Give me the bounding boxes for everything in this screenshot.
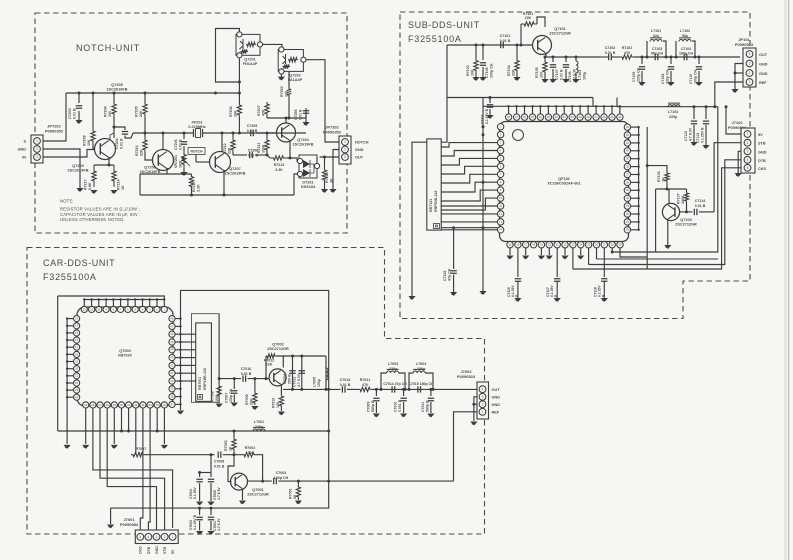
svg-text:82µ: 82µ	[653, 34, 659, 38]
resistor R7105	[544, 57, 546, 60]
wire left down1	[412, 142, 427, 296]
ground R7218	[321, 189, 328, 193]
svg-text:56µ: 56µ	[682, 34, 688, 38]
wire after C7013	[347, 388, 358, 390]
svg-text:100K: 100K	[246, 451, 255, 455]
svg-text:0.01 B: 0.01 B	[119, 138, 123, 149]
node rail-Q7201	[214, 92, 217, 95]
svg-text:C7205: C7205	[247, 124, 258, 128]
svg-text:L7001: L7001	[254, 420, 264, 424]
svg-text:REF: REF	[492, 411, 500, 415]
resistor R7211	[266, 133, 268, 139]
svg-text:STB: STB	[163, 547, 167, 554]
trimmer VR7201	[182, 151, 186, 168]
wire J7102 STB	[714, 143, 741, 212]
svg-text:680p B: 680p B	[371, 400, 375, 412]
svg-text:R7216: R7216	[135, 145, 139, 156]
ground Q7202	[280, 74, 282, 77]
node mid-R7211	[266, 132, 269, 135]
svg-text:0.01 B: 0.01 B	[241, 372, 252, 376]
svg-text:1K: 1K	[228, 446, 232, 451]
svg-text:5: 5	[139, 535, 141, 539]
node mid-R7216	[144, 132, 147, 135]
ground JP7201	[76, 188, 83, 192]
capacitor C7050	[289, 371, 295, 374]
svg-text:SUB-DDS-UNIT: SUB-DDS-UNIT	[408, 20, 480, 30]
svg-text:RRP1BB-132: RRP1BB-132	[203, 368, 207, 390]
resistor R7012	[265, 356, 267, 379]
svg-text:22K: 22K	[139, 110, 143, 117]
node filter	[375, 388, 378, 391]
wire JP7201 pin1 to rail	[43, 93, 66, 141]
svg-text:R7212: R7212	[223, 143, 227, 154]
svg-text:6.8K: 6.8K	[88, 182, 92, 190]
svg-text:220p CH: 220p CH	[636, 68, 640, 82]
svg-text:1K: 1K	[329, 178, 333, 183]
diode pack D7201 box	[299, 155, 317, 178]
svg-text:RB7001: RB7001	[198, 377, 202, 390]
svg-text:UNLESS OTHERWISE NOTED.: UNLESS OTHERWISE NOTED.	[60, 217, 125, 222]
svg-text:F3255100A: F3255100A	[43, 272, 97, 282]
svg-text:R7051: R7051	[289, 488, 293, 499]
svg-text:L7103: L7103	[578, 70, 582, 80]
svg-text:1K: 1K	[661, 177, 665, 182]
resistor R7007	[131, 453, 145, 457]
capacitor C7116	[515, 279, 521, 282]
wire Q7103 collector	[668, 189, 670, 204]
svg-text:2: 2	[482, 402, 484, 406]
svg-text:180p CH: 180p CH	[679, 52, 693, 56]
svg-text:2: 2	[164, 535, 166, 539]
capacitor C7015	[418, 386, 421, 392]
svg-text:4: 4	[148, 535, 150, 539]
wire Q7002 collector out	[283, 355, 326, 357]
svg-text:22K: 22K	[227, 147, 231, 154]
svg-text:C7008: C7008	[214, 460, 225, 464]
svg-text:R7104: R7104	[507, 65, 511, 76]
wire to Q7204 base	[256, 132, 276, 134]
wire Q7101 emitter	[545, 53, 547, 57]
wire R7213 to D7201	[287, 158, 299, 161]
svg-text:R7214: R7214	[117, 179, 121, 190]
wire left down2	[482, 228, 484, 291]
node 5v	[693, 105, 696, 108]
IC QF102 body	[500, 122, 629, 242]
svg-text:NOTCH: NOTCH	[355, 141, 369, 145]
inductor L7001	[253, 427, 265, 431]
ground C7255	[302, 122, 309, 126]
node lower	[266, 154, 269, 157]
svg-text:5V: 5V	[758, 133, 763, 137]
svg-text:100K: 100K	[681, 195, 685, 204]
wire carpin4	[113, 408, 115, 444]
connector J7002	[477, 382, 489, 419]
svg-text:3: 3	[36, 155, 38, 159]
svg-text:C7104: C7104	[681, 47, 691, 51]
wire carpin5	[121, 408, 123, 431]
wire carpin8	[140, 408, 143, 531]
svg-text:1: 1	[344, 140, 346, 144]
svg-text:Q7203: Q7203	[72, 164, 83, 168]
ground C7203	[75, 120, 82, 124]
svg-text:R7206: R7206	[229, 106, 233, 117]
svg-text:Q7103: Q7103	[680, 218, 691, 222]
svg-text:C7003: C7003	[276, 471, 287, 475]
ground J7002	[470, 422, 477, 426]
wire bot staircase1	[572, 248, 574, 269]
IC Q7003 left pins	[74, 316, 80, 322]
svg-text:10K: 10K	[233, 110, 237, 117]
crystal XF201	[194, 129, 203, 137]
ground Q7002	[278, 412, 285, 416]
capacitor C7103	[655, 54, 658, 60]
svg-text:Q7101: Q7101	[554, 27, 565, 31]
svg-text:0.01 B: 0.01 B	[247, 129, 258, 133]
capacitor C7111	[489, 98, 491, 104]
svg-text:2SC2619FB: 2SC2619FB	[140, 170, 161, 174]
wire Q7002 emitter	[280, 385, 282, 394]
svg-text:REF: REF	[759, 81, 767, 85]
ground R7217	[90, 190, 97, 194]
svg-text:100µ: 100µ	[582, 72, 586, 80]
node mid-Q7206	[162, 132, 165, 135]
wire J7102 GND	[738, 151, 741, 173]
svg-text:NOTE:: NOTE:	[60, 199, 74, 204]
transistor Q7001	[231, 473, 248, 490]
svg-text:4: 4	[747, 158, 749, 162]
svg-text:0.1 25V B: 0.1 25V B	[193, 514, 197, 530]
wire bot staircase5	[620, 248, 647, 257]
wire bypass caps feed	[517, 248, 519, 277]
capacitor C7109	[641, 57, 643, 64]
svg-text:2: 2	[747, 141, 749, 145]
svg-text:2SC2619FB: 2SC2619FB	[293, 142, 314, 146]
wire J7002 OUT	[475, 388, 477, 390]
node rail-C7203	[78, 92, 81, 95]
svg-text:C7014 47p CH: C7014 47p CH	[383, 382, 407, 386]
svg-text:100: 100	[276, 402, 280, 408]
svg-text:CKS: CKS	[758, 167, 766, 171]
diode pack D7201 internals	[303, 160, 310, 177]
wire C7114 right	[699, 211, 714, 213]
node Q7204 emitter	[289, 157, 292, 160]
ground Q7001	[239, 501, 246, 505]
svg-text:25V B: 25V B	[287, 374, 291, 384]
resistor R7218	[324, 157, 326, 165]
IC QF102 bottom pins	[507, 242, 513, 248]
svg-text:F3255100A: F3255100A	[408, 34, 462, 44]
svg-text:0.01 B: 0.01 B	[72, 108, 76, 119]
wire notch top rail	[66, 92, 240, 94]
wire carpin10	[156, 408, 158, 431]
svg-text:2SC2712GR: 2SC2712GR	[267, 347, 289, 351]
inductor L7004	[409, 373, 413, 389]
svg-text:2SC2619FB: 2SC2619FB	[107, 87, 128, 91]
wire lower path2	[255, 154, 267, 156]
wire JP101 REF	[715, 82, 743, 107]
svg-text:2: 2	[344, 148, 346, 152]
svg-text:1: 1	[172, 535, 174, 539]
CAR-DDS-UNIT dashed border	[27, 248, 485, 535]
IC QF102 top pins	[505, 114, 511, 120]
capacitor C7118	[601, 279, 607, 282]
svg-text:47K: 47K	[261, 109, 265, 116]
capacitor C7110	[698, 57, 700, 64]
ground left down1	[408, 296, 415, 300]
node ref rail	[120, 430, 123, 433]
svg-text:L7104: L7104	[668, 110, 678, 114]
node emitter	[108, 164, 111, 167]
capacitor C7203	[76, 106, 82, 109]
svg-text:2: 2	[36, 147, 38, 151]
wire C7203 stub	[78, 93, 80, 103]
connector JP7202	[339, 136, 351, 164]
svg-text:P0090523: P0090523	[735, 42, 754, 47]
resistor R7208	[92, 93, 94, 128]
wire base line q7001	[145, 454, 215, 456]
svg-text:R7103: R7103	[466, 65, 470, 76]
svg-text:0.001 B: 0.001 B	[398, 399, 402, 412]
svg-text:GND: GND	[18, 148, 27, 152]
svg-text:5: 5	[747, 166, 749, 170]
wire RB7001 to IC	[181, 333, 196, 335]
svg-text:47p CH: 47p CH	[447, 268, 451, 281]
svg-text:C7013: C7013	[340, 378, 351, 382]
svg-text:C7016: C7016	[241, 367, 252, 371]
wire 5V branch pin1	[726, 107, 741, 134]
wire RB7001 right	[218, 314, 220, 384]
node rail-R7205	[144, 92, 147, 95]
svg-text:C7115: C7115	[443, 271, 447, 281]
svg-text:P0090352: P0090352	[45, 128, 64, 133]
ground JP7202 pin2	[329, 189, 336, 193]
wire carpin6	[128, 408, 130, 431]
svg-text:0.01 B: 0.01 B	[695, 204, 706, 208]
svg-text:0.01 B: 0.01 B	[340, 383, 351, 387]
capacitor C7001	[210, 508, 212, 515]
svg-text:180µ: 180µ	[417, 367, 425, 371]
wire Q7001 emitter	[242, 489, 244, 500]
svg-text:560p B: 560p B	[425, 400, 429, 412]
svg-text:100p CH: 100p CH	[229, 389, 233, 403]
connector JP101	[743, 48, 756, 87]
wire q7001 base drop	[228, 455, 234, 482]
digital transistor Q7201 pins	[237, 32, 242, 37]
svg-text:RESISTOR VALUES ARE IN Ω.1: RESISTOR VALUES ARE IN Ω.1/10W ;	[60, 207, 140, 212]
svg-text:C7101: C7101	[500, 34, 511, 38]
svg-text:22K: 22K	[249, 398, 253, 405]
node rail Q7207	[223, 194, 226, 197]
capacitor C7005	[210, 473, 212, 478]
resistor R7051	[297, 481, 299, 486]
svg-text:P0090523: P0090523	[457, 374, 476, 379]
wire sub out line	[546, 56, 600, 58]
svg-text:QF102: QF102	[558, 177, 570, 181]
svg-text:R7007: R7007	[136, 447, 147, 451]
svg-text:100p CH: 100p CH	[489, 63, 493, 78]
svg-text:1M: 1M	[139, 452, 144, 456]
svg-text:22K: 22K	[525, 16, 532, 20]
svg-text:RRP50B-132: RRP50B-132	[434, 191, 438, 212]
capacitor C7204	[114, 127, 125, 130]
wire Q7201 to Q7202	[263, 44, 282, 46]
svg-text:OUT: OUT	[355, 156, 364, 160]
svg-text:FA1A4P: FA1A4P	[288, 78, 303, 82]
svg-text:R7253: R7253	[280, 86, 284, 97]
svg-text:GND: GND	[155, 546, 159, 554]
svg-text:1: 1	[36, 139, 38, 143]
svg-text:2SC2712GR: 2SC2712GR	[549, 31, 571, 35]
svg-text:4.7 6.3V: 4.7 6.3V	[217, 518, 221, 531]
svg-text:NOTCH: NOTCH	[190, 150, 203, 154]
digital transistor Q7202 box	[278, 50, 303, 72]
capacitor C7105	[482, 45, 484, 60]
resistor R7214	[112, 165, 116, 187]
svg-text:10K: 10K	[87, 139, 91, 146]
svg-text:Q7002: Q7002	[272, 343, 283, 347]
wire base line q7001b	[223, 454, 242, 456]
svg-text:Q7003: Q7003	[119, 349, 130, 353]
wire carpin0	[85, 408, 87, 444]
wire RB bottom out	[441, 227, 497, 229]
svg-text:R7011: R7011	[360, 378, 370, 382]
IC Q7003 top pins	[81, 306, 87, 312]
wire Q7201 top loop	[216, 29, 240, 83]
svg-text:100: 100	[284, 91, 288, 97]
connector JP7201	[31, 135, 43, 163]
wire carpin2	[100, 408, 165, 531]
ground car right bus	[177, 411, 184, 415]
svg-text:R7213: R7213	[274, 163, 285, 167]
resistor R7213	[270, 156, 287, 160]
wire JP7202 pin3 OUT	[320, 156, 339, 158]
wire bot staircase4	[612, 248, 655, 252]
svg-text:R7009: R7009	[245, 394, 249, 405]
resistor R7217	[92, 165, 96, 187]
svg-text:R7053: R7053	[224, 440, 228, 451]
wire car vcc loop	[181, 290, 329, 431]
svg-text:DTB: DTB	[758, 159, 766, 163]
svg-text:R7217: R7217	[84, 179, 88, 190]
node bias	[285, 117, 288, 120]
svg-text:STB: STB	[758, 142, 766, 146]
capacitor C7010	[403, 389, 405, 396]
resistor R7009	[254, 379, 256, 391]
svg-text:C7105: C7105	[485, 67, 489, 78]
resistor R7106	[665, 172, 669, 182]
capacitor C7108	[670, 57, 672, 64]
svg-text:1K: 1K	[121, 185, 125, 190]
resistor R7204	[113, 93, 115, 101]
svg-text:L7004: L7004	[416, 362, 426, 366]
svg-text:4: 4	[482, 387, 484, 391]
svg-text:R7207: R7207	[257, 105, 261, 116]
svg-text:100µ: 100µ	[317, 379, 321, 387]
svg-text:C7103: C7103	[652, 47, 662, 51]
digital transistor Q7201 box	[236, 34, 260, 55]
resistor R7216	[144, 133, 146, 138]
wire JP101 gnd pins	[735, 64, 743, 90]
svg-text:100K: 100K	[261, 144, 265, 153]
ground R7214	[110, 190, 117, 194]
capacitor C7115	[453, 228, 455, 269]
resistor R7207	[266, 116, 268, 118]
svg-text:0.01 B: 0.01 B	[298, 109, 302, 120]
svg-text:VR7201: VR7201	[174, 155, 178, 168]
resistor R7253	[288, 75, 290, 88]
svg-text:3.3K: 3.3K	[275, 168, 283, 172]
wire Q7207 emitter	[223, 170, 225, 195]
wire RB7131 lower pins	[441, 205, 497, 207]
svg-text:0.01 B: 0.01 B	[605, 51, 616, 55]
svg-text:L7101: L7101	[651, 29, 661, 33]
wire RB7131 to IC staircase	[441, 143, 497, 147]
wire bot staircase3	[596, 248, 598, 259]
svg-text:CAR-DDS-UNIT: CAR-DDS-UNIT	[43, 258, 115, 268]
inductor L7104	[668, 103, 680, 107]
svg-text:2SC2619FB: 2SC2619FB	[68, 168, 89, 172]
svg-text:XF201: XF201	[191, 121, 202, 125]
digital transistor Q7202 pins	[279, 47, 284, 52]
wire R7002 to collector	[256, 455, 263, 481]
svg-text:GND: GND	[355, 148, 364, 152]
svg-text:Q7202: Q7202	[289, 74, 300, 78]
svg-text:RB7131: RB7131	[429, 199, 433, 212]
node c7101 nodes	[475, 44, 478, 47]
capacitor C7104	[684, 54, 687, 60]
svg-text:R7218: R7218	[325, 172, 329, 183]
wire rail to Q7206 emitter	[139, 174, 141, 195]
resistor R7107	[686, 189, 688, 192]
svg-text:220µ: 220µ	[255, 425, 263, 429]
node f1	[641, 56, 644, 59]
svg-text:0.01 B: 0.01 B	[500, 39, 511, 43]
resistor R7212	[232, 133, 234, 138]
wire car right bus	[180, 319, 182, 410]
svg-text:CKO: CKO	[139, 546, 143, 554]
wire carpin3	[107, 408, 156, 531]
capacitor C7255	[305, 108, 307, 118]
wire Q7206 collector	[162, 133, 164, 150]
wire filter mid	[372, 388, 475, 390]
svg-text:5V: 5V	[171, 549, 175, 554]
capacitor C7206	[183, 133, 185, 139]
wire Q7204 emitter	[289, 140, 291, 158]
inductor L7102	[675, 41, 677, 57]
wire lower path	[233, 154, 247, 156]
svg-text:P0090584: P0090584	[120, 522, 139, 527]
svg-text:R7217: R7217	[192, 181, 196, 192]
transistor Q7207	[210, 152, 231, 173]
transistor Q7206	[153, 150, 174, 171]
transistor Q7002	[269, 369, 286, 386]
svg-text:R7002: R7002	[245, 446, 256, 450]
svg-text:P0090352: P0090352	[323, 129, 342, 134]
transistor Q7204	[277, 123, 296, 142]
wire bias caps	[210, 455, 212, 473]
svg-text:100: 100	[108, 111, 112, 117]
svg-text:R7107: R7107	[677, 193, 681, 204]
svg-text:XC236C032AF-601: XC236C032AF-601	[547, 182, 580, 186]
IC Q7003 right pins	[169, 316, 175, 322]
svg-text:220µ: 220µ	[389, 367, 397, 371]
svg-text:3: 3	[482, 395, 484, 399]
svg-text:1: 1	[482, 410, 484, 414]
resistor R7205	[144, 93, 146, 101]
wire ref rail	[58, 430, 329, 432]
capacitor C7208	[250, 152, 253, 158]
capacitor C7113	[705, 107, 707, 119]
